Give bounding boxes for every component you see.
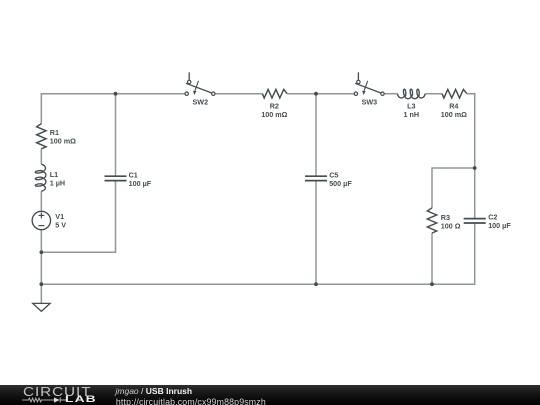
- svg-text:100 mΩ: 100 mΩ: [441, 110, 467, 119]
- svg-text:SW3: SW3: [362, 98, 378, 107]
- svg-text:100 mΩ: 100 mΩ: [50, 137, 76, 146]
- svg-text:500 µF: 500 µF: [329, 179, 352, 188]
- svg-text:1 nH: 1 nH: [404, 110, 420, 119]
- svg-text:100 Ω: 100 Ω: [441, 221, 461, 230]
- svg-text:SW2: SW2: [193, 98, 209, 107]
- svg-text:1 µH: 1 µH: [50, 178, 65, 187]
- svg-text:5 V: 5 V: [55, 221, 66, 230]
- svg-text:100 µF: 100 µF: [129, 179, 152, 188]
- svg-text:100 µF: 100 µF: [488, 221, 511, 230]
- svg-text:100 mΩ: 100 mΩ: [261, 110, 287, 119]
